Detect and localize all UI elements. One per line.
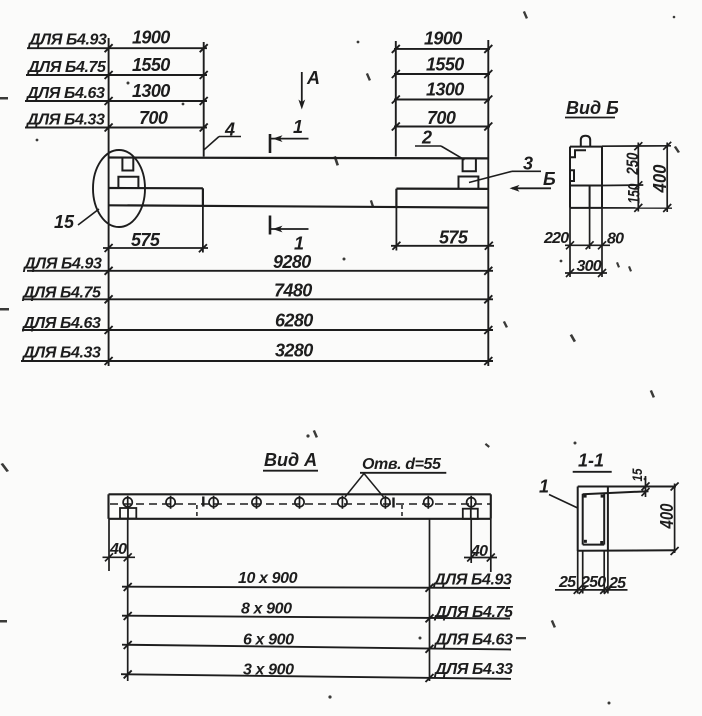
view B outline top bbox=[570, 146, 602, 148]
extension left below bbox=[569, 208, 571, 277]
beam ledge line left bbox=[109, 187, 203, 190]
detail circle 15 bbox=[93, 150, 145, 227]
dim line 1550 (right table row 2) bbox=[394, 73, 490, 75]
beam ledge line right bbox=[396, 188, 488, 190]
svg-text:Вид А: Вид А bbox=[264, 450, 317, 470]
dim line 575 right bbox=[391, 245, 494, 247]
view B ledge line bbox=[570, 185, 602, 187]
dim line 220/80 bbox=[565, 244, 610, 246]
svg-text:250: 250 bbox=[580, 574, 606, 591]
bottom row line 2 bbox=[122, 616, 510, 619]
section mark 1 top bbox=[269, 134, 272, 153]
extension plan left edge down bbox=[108, 519, 110, 571]
clip plan right bbox=[463, 509, 478, 519]
rebar dots bbox=[584, 495, 604, 544]
svg-text:ДЛЯ Б4.75: ДЛЯ Б4.75 bbox=[433, 604, 514, 621]
embedded plate block item3 (right end) bbox=[459, 177, 479, 189]
extension top right bbox=[602, 145, 671, 147]
dim line 1550 (left table row 2) bbox=[26, 74, 207, 76]
view B lower column edge bbox=[589, 186, 591, 208]
hidden edge dashed left bbox=[196, 505, 198, 518]
svg-text:9280: 9280 bbox=[273, 252, 311, 272]
extension line (right table left side x=395.8) bbox=[395, 41, 397, 157]
view B lifting tab bbox=[581, 136, 590, 147]
dim line 25/250/25 bbox=[555, 589, 628, 591]
hole 1 bbox=[123, 498, 132, 507]
svg-text:ДЛЯ Б4.75: ДЛЯ Б4.75 bbox=[26, 59, 107, 76]
section top edge bbox=[578, 486, 676, 488]
extension hole1 center down bbox=[127, 519, 129, 681]
beam step vertical right bbox=[395, 189, 397, 208]
boundary tick left on plan bbox=[202, 497, 204, 507]
dim line 1300 (left table row 3) bbox=[25, 100, 207, 102]
svg-text:80: 80 bbox=[607, 231, 624, 248]
svg-text:ДЛЯ Б4.33: ДЛЯ Б4.33 bbox=[21, 345, 101, 362]
extension ledge right bbox=[602, 184, 643, 187]
svg-text:15: 15 bbox=[629, 468, 645, 481]
dim line 7480 row2 bbox=[24, 298, 493, 300]
view B side plate bbox=[570, 170, 574, 181]
svg-text:Б: Б bbox=[543, 169, 556, 189]
dim line 9280 row1 bbox=[27, 270, 493, 272]
dim line 1900 (right table row 1) bbox=[394, 48, 490, 50]
hole 3 bbox=[209, 498, 218, 507]
hidden edge dashed right bbox=[401, 505, 403, 518]
leader to hole 7 bbox=[364, 474, 384, 498]
section outer right wall bbox=[607, 487, 609, 552]
svg-text:Отв. d=55: Отв. d=55 bbox=[362, 456, 442, 473]
beam top chord bbox=[109, 156, 489, 159]
dim line 3280 row4 bbox=[21, 360, 493, 362]
svg-text:6280: 6280 bbox=[275, 311, 313, 331]
svg-text:ДЛЯ Б4.63: ДЛЯ Б4.63 bbox=[25, 85, 105, 102]
svg-text:40: 40 bbox=[470, 543, 488, 560]
extension line right (beam right face x=488.3) bbox=[487, 40, 489, 366]
svg-text:250: 250 bbox=[623, 152, 642, 175]
svg-text:1300: 1300 bbox=[426, 80, 464, 100]
hole 7 bbox=[381, 498, 390, 507]
svg-text:1900: 1900 bbox=[132, 28, 170, 48]
hole 6 bbox=[338, 498, 347, 507]
dim 400 vertical bbox=[666, 143, 668, 213]
svg-text:ДЛЯ Б4.33: ДЛЯ Б4.33 bbox=[433, 661, 513, 678]
tick marks left table bbox=[105, 44, 208, 131]
beam step vertical left bbox=[202, 188, 204, 206]
svg-text:1550: 1550 bbox=[426, 55, 464, 75]
hole 4 bbox=[252, 498, 261, 507]
embedded clip (left end, under top chord) bbox=[122, 158, 133, 170]
dim line 1300 (right table row 3) bbox=[394, 99, 490, 101]
dim 400 vertical bbox=[674, 484, 676, 554]
dim line 575 left bbox=[103, 247, 208, 249]
svg-text:700: 700 bbox=[139, 108, 168, 128]
svg-text:150: 150 bbox=[625, 183, 644, 203]
section inner right wall bbox=[603, 494, 605, 545]
dim 15 vertical bbox=[645, 476, 647, 497]
leader to hole 6 bbox=[345, 474, 364, 498]
svg-text:ДЛЯ Б4.63: ДЛЯ Б4.63 bbox=[433, 632, 513, 649]
dim line 1900 (left table row 1) bbox=[27, 47, 207, 49]
extension line (left table right side x=203.7) bbox=[203, 42, 205, 157]
plan outline top bbox=[109, 493, 491, 495]
bottom rows tick marks bbox=[124, 583, 434, 682]
extension plan right edge down bbox=[490, 519, 492, 572]
svg-text:6 x 900: 6 x 900 bbox=[243, 632, 294, 649]
section outer bottom bbox=[578, 549, 676, 552]
extension bottom right bbox=[602, 207, 672, 209]
dim line 700 (right table row 4) bbox=[394, 126, 490, 128]
extension below step left bbox=[202, 206, 204, 253]
view B outline right bbox=[601, 147, 603, 208]
embedded plate block left (on ledge) bbox=[118, 177, 138, 188]
section mark 1 bottom bbox=[269, 216, 272, 235]
svg-text:1-1: 1-1 bbox=[578, 451, 604, 471]
section inner left wall bbox=[582, 494, 584, 545]
svg-text:2: 2 bbox=[421, 128, 432, 148]
extension right below bbox=[601, 208, 603, 277]
svg-text:1550: 1550 bbox=[132, 55, 170, 75]
svg-text:7480: 7480 bbox=[274, 281, 312, 301]
plan outline left bbox=[107, 494, 109, 519]
hole 2 bbox=[166, 498, 175, 507]
svg-text:1900: 1900 bbox=[424, 29, 462, 49]
svg-text:1300: 1300 bbox=[132, 81, 170, 101]
hole 9 bbox=[467, 498, 476, 507]
svg-text:ДЛЯ Б4.63: ДЛЯ Б4.63 bbox=[21, 315, 101, 332]
svg-text:300: 300 bbox=[577, 258, 602, 275]
embedded clip item2 (right end) bbox=[463, 159, 476, 171]
beam bottom chord bbox=[109, 205, 489, 207]
plan center dashed axis bbox=[110, 503, 490, 505]
svg-text:400: 400 bbox=[657, 504, 677, 530]
hole 5 bbox=[295, 498, 304, 507]
svg-text:ДЛЯ Б4.93: ДЛЯ Б4.93 bbox=[22, 256, 102, 273]
svg-text:ДЛЯ Б4.33: ДЛЯ Б4.33 bbox=[25, 112, 105, 129]
svg-text:А: А bbox=[306, 68, 320, 88]
svg-text:575: 575 bbox=[439, 228, 469, 248]
plan outline right bbox=[490, 494, 492, 519]
dim chain 250/150 bbox=[637, 143, 639, 212]
plan outline bottom bbox=[109, 518, 491, 520]
svg-text:700: 700 bbox=[427, 108, 456, 128]
section inner bottom bbox=[583, 544, 605, 546]
dim line 40 right bbox=[464, 557, 497, 559]
extension mid below bbox=[589, 208, 591, 249]
extension hole8 center down bbox=[429, 519, 431, 681]
svg-text:ДЛЯ Б4.93: ДЛЯ Б4.93 bbox=[432, 572, 512, 589]
boundary tick right on plan bbox=[392, 498, 394, 508]
svg-text:400: 400 bbox=[650, 165, 670, 194]
svg-text:15: 15 bbox=[54, 212, 75, 232]
hole 8 bbox=[424, 498, 433, 507]
svg-text:10 x 900: 10 x 900 bbox=[238, 570, 298, 587]
svg-text:220: 220 bbox=[543, 230, 569, 247]
svg-text:8 x 900: 8 x 900 bbox=[241, 601, 292, 618]
section outer left wall bbox=[577, 487, 579, 552]
dim line 700 (left table row 4) bbox=[25, 127, 207, 129]
svg-text:1: 1 bbox=[539, 477, 549, 497]
view B bottom bbox=[570, 207, 602, 209]
svg-text:1: 1 bbox=[294, 234, 304, 254]
svg-text:25: 25 bbox=[608, 575, 627, 592]
svg-text:Вид Б: Вид Б bbox=[566, 98, 619, 118]
bottom row line 4 bbox=[121, 674, 511, 679]
bottom row line 1 bbox=[122, 587, 510, 588]
svg-text:25: 25 bbox=[558, 574, 577, 591]
extension hole9 center down bbox=[470, 519, 472, 563]
tick marks mid table bbox=[105, 267, 493, 365]
view B outline left bbox=[569, 147, 571, 208]
tick marks right table bbox=[392, 45, 493, 131]
svg-text:ДЛЯ Б4.93: ДЛЯ Б4.93 bbox=[27, 32, 107, 49]
dim line 300 bbox=[565, 272, 607, 274]
clip plan left bbox=[120, 508, 136, 519]
svg-text:3 x 900: 3 x 900 bbox=[243, 662, 294, 679]
bottom dim extensions bbox=[577, 551, 579, 594]
svg-text:575: 575 bbox=[131, 230, 161, 250]
svg-text:ДЛЯ Б4.75: ДЛЯ Б4.75 bbox=[21, 285, 102, 302]
extension line left (beam left face x=108.6) bbox=[108, 38, 110, 366]
dim line 40 left bbox=[103, 556, 136, 558]
svg-text:40: 40 bbox=[109, 541, 127, 558]
bottom row line 3 bbox=[122, 645, 511, 650]
svg-text:3280: 3280 bbox=[275, 341, 313, 361]
dim line 6280 row3 bbox=[22, 329, 493, 331]
extension below step right bbox=[395, 207, 397, 250]
view B inner corner step bbox=[570, 150, 586, 157]
section inner top edge bbox=[583, 491, 649, 494]
svg-text:1: 1 bbox=[293, 117, 303, 137]
